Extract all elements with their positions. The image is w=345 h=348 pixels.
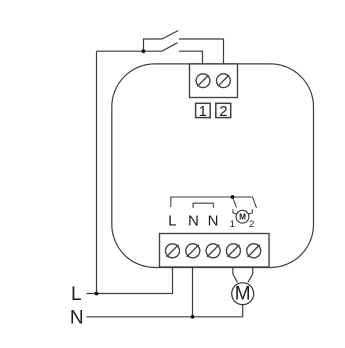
svg-text:M: M bbox=[239, 212, 246, 221]
switch S1 lower blade bbox=[162, 43, 178, 52]
svg-text:1: 1 bbox=[230, 219, 235, 230]
terminal screw L bbox=[166, 244, 180, 258]
svg-text:2: 2 bbox=[219, 103, 227, 120]
svg-text:L: L bbox=[168, 213, 176, 230]
node: switch branch junction bbox=[142, 49, 146, 53]
device enclosure bbox=[112, 64, 314, 268]
svg-text:N: N bbox=[188, 213, 199, 230]
terminal screw M1 bbox=[226, 244, 240, 258]
terminal screw N2 bbox=[206, 244, 220, 258]
terminal screw N1 bbox=[186, 244, 200, 258]
internal motor switch blade 1 bbox=[233, 197, 237, 208]
wire: branch to upper switch pole bbox=[144, 39, 163, 51]
wire: lower switch contact to input terminal 1 bbox=[179, 51, 203, 64]
wire: motor feed from terminal 5 bbox=[248, 268, 253, 283]
label square 1 bbox=[196, 103, 211, 117]
wire: motor return to N bbox=[242, 305, 244, 317]
terminal block top (inputs) bbox=[190, 64, 238, 98]
wire: upper switch contact to input terminal 2 bbox=[179, 39, 224, 64]
terminal screw M2 bbox=[247, 244, 261, 258]
internal bridge N-N bbox=[193, 203, 213, 208]
svg-text:M: M bbox=[235, 284, 251, 305]
terminal screw input 2 bbox=[217, 74, 231, 88]
internal motor lead 1 bbox=[233, 209, 238, 214]
node: junction L supply bbox=[95, 292, 99, 296]
node: motor switch common junction bbox=[231, 195, 235, 199]
internal link: terminal L to motor switch common bbox=[171, 197, 253, 207]
svg-text:2: 2 bbox=[249, 219, 254, 230]
svg-text:N: N bbox=[208, 213, 219, 230]
terminal screw input 1 bbox=[196, 74, 210, 88]
internal motor switch blade 2 bbox=[253, 197, 257, 208]
node: junction N supply bbox=[191, 315, 195, 319]
wire: supply N horizontal bbox=[87, 316, 243, 318]
wire: terminal N down to supply N line bbox=[192, 267, 194, 317]
wire: motor feed from terminal 4 bbox=[233, 268, 238, 283]
label square 2 bbox=[216, 103, 231, 117]
internal motor lead 2 bbox=[247, 209, 252, 214]
svg-text:N: N bbox=[70, 308, 84, 329]
svg-text:L: L bbox=[71, 284, 82, 305]
wire: terminal L down to supply L bbox=[87, 267, 173, 294]
switch S1 upper blade bbox=[162, 31, 178, 40]
wire: L feed horizontal to switch poles bbox=[97, 50, 163, 52]
svg-text:1: 1 bbox=[199, 103, 207, 120]
terminal block bottom (L N N 1 2) bbox=[160, 234, 270, 268]
internal motor symbol bbox=[236, 210, 249, 223]
motor M (roller drive) bbox=[232, 283, 254, 305]
wire: supply L riser up left side bbox=[96, 51, 98, 293]
